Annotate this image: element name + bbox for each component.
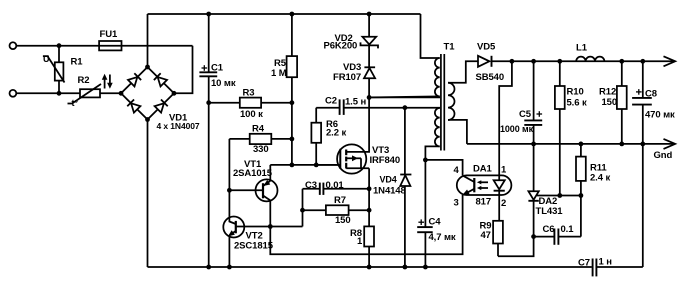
capacitor C6 (534, 224, 581, 245)
diode VD3 FR107 (333, 62, 375, 97)
svg-text:C4: C4 (429, 217, 442, 228)
capacitor C5 (500, 61, 542, 144)
svg-text:150: 150 (602, 97, 618, 108)
junction R3 right (290, 100, 295, 105)
wire riser to C3 R7 (302, 189, 304, 227)
junction R1 top (57, 43, 62, 48)
junction bridge bottom (145, 117, 150, 122)
svg-text:2SC1815: 2SC1815 (234, 241, 274, 252)
svg-text:4 x 1N4007: 4 x 1N4007 (157, 121, 200, 131)
diode VD4 1N4148 (373, 108, 411, 267)
junction out pin1 branch (510, 59, 515, 64)
junction gate line R6 (314, 163, 319, 168)
svg-text:470 мк: 470 мк (645, 110, 675, 121)
shunt regulator DA2 TL431 (528, 144, 581, 217)
wire node to DA1 pin3 (270, 195, 462, 254)
wire ground riser (642, 144, 644, 267)
wire R2 to bridge left (100, 92, 121, 94)
wire bottom rail (148, 266, 592, 268)
svg-text:3: 3 (454, 198, 459, 209)
wire N input to R2 (16, 92, 80, 94)
wire aux node (425, 160, 462, 176)
wire gate line (270, 164, 340, 166)
svg-text:FU1: FU1 (100, 29, 118, 40)
svg-text:P6K200: P6K200 (324, 41, 358, 52)
transistor VT2 2SC1815 (223, 217, 302, 268)
svg-text:R10: R10 (567, 87, 584, 98)
input terminal X2 (10, 90, 17, 97)
thermistor symbol t (68, 84, 102, 104)
resistor R9 (480, 221, 503, 257)
junction out R10 (557, 59, 562, 64)
junction VT2 emitter bottom rail (227, 265, 232, 270)
svg-text:817: 817 (476, 197, 492, 208)
junction C3 right (367, 186, 372, 191)
svg-text:VD5: VD5 (477, 42, 496, 53)
junction C6 DA2 line (531, 234, 536, 239)
junction ref R10 (557, 193, 562, 198)
svg-text:1: 1 (357, 236, 363, 247)
junction gnd R11 (579, 142, 584, 147)
T1 primary winding (369, 14, 440, 97)
transformer T1 (441, 42, 455, 151)
svg-text:R12: R12 (599, 87, 616, 98)
junction gnd R12 (619, 142, 624, 147)
wire source drop (368, 168, 370, 267)
junction VD4 bottom rail (403, 265, 408, 270)
svg-text:U: U (43, 54, 49, 64)
svg-text:C2: C2 (325, 96, 337, 107)
T1 secondary winding (448, 61, 478, 144)
junction aux VD4 tap (403, 105, 408, 110)
junction feedback node (268, 224, 273, 229)
junction R7 left (300, 208, 305, 213)
capacitor C3 (303, 180, 370, 195)
bridge diode bottom-right (154, 99, 167, 112)
wire primary bottom (369, 96, 440, 98)
junction R7 right (367, 208, 372, 213)
wire pin1 to out rail (499, 61, 512, 175)
svg-text:1 M: 1 M (271, 68, 287, 79)
resistor R7 (303, 195, 370, 226)
resistor R2 (thermistor) (80, 89, 100, 97)
svg-text:2SA1015: 2SA1015 (233, 168, 273, 179)
svg-text:1N4148: 1N4148 (373, 186, 406, 197)
svg-text:R4: R4 (252, 124, 265, 135)
wire L input to fuse (16, 45, 192, 47)
svg-text:T1: T1 (444, 42, 456, 53)
svg-text:C1: C1 (211, 63, 224, 74)
wire Gnd rail (467, 143, 674, 145)
junction drain node (367, 95, 372, 100)
junction R5 top rail (290, 12, 295, 17)
output arrow Gnd (664, 139, 676, 149)
wire top rail (148, 13, 421, 15)
capacitor C7 (578, 257, 643, 277)
bridge diode bottom-left (127, 99, 140, 112)
svg-text:R3: R3 (243, 88, 255, 99)
svg-text:C6: C6 (543, 224, 555, 235)
svg-text:4,7 мк: 4,7 мк (429, 232, 456, 243)
svg-text:R2: R2 (78, 75, 90, 86)
junction gnd C5 DA2 (531, 142, 536, 147)
diode VD5 SB540 (476, 42, 505, 84)
capacitor C4 (417, 160, 456, 267)
junction ref R11 (579, 193, 584, 198)
svg-text:5.6 к: 5.6 к (567, 98, 587, 109)
wire R4 left drop (228, 139, 230, 217)
svg-text:1 н: 1 н (599, 257, 613, 268)
svg-text:SB540: SB540 (476, 72, 505, 83)
svg-text:1.5 н: 1.5 н (345, 97, 366, 108)
junction gate line R5 (290, 163, 295, 168)
svg-text:330: 330 (253, 144, 269, 155)
wire bridge minus drop (147, 120, 149, 268)
bridge rectifier VD1 (121, 67, 174, 120)
resistor R3 (209, 88, 292, 121)
junction VT1 base / VT2 collector (227, 188, 232, 193)
junction C1 top rail (206, 12, 211, 17)
svg-text:100 к: 100 к (240, 109, 263, 120)
resistor R4 (229, 124, 292, 156)
capacitor C1 (199, 14, 235, 267)
capacitor C2 (316, 96, 440, 115)
junction bridge top (145, 65, 150, 70)
fuse FU1 (99, 41, 121, 50)
junction out R12 (619, 59, 624, 64)
junction aux node (423, 158, 428, 163)
capacitor C8 (632, 61, 675, 144)
wire fuse drop to bridge right (174, 46, 193, 94)
junction R8 bottom rail (367, 265, 372, 270)
wire pin2 to R9 (498, 195, 500, 221)
bridge diode top-left (128, 73, 141, 86)
svg-text:10 мк: 10 мк (211, 78, 236, 89)
wire R9 to DA2 cathode (498, 202, 534, 257)
resistor R5 (271, 14, 297, 165)
junction bridge right (172, 91, 177, 96)
junction bridge left (119, 91, 124, 96)
varistor R1 (58, 46, 60, 63)
svg-text:2.4 к: 2.4 к (590, 173, 610, 184)
input terminal X1 (10, 42, 17, 49)
junction out C8 (640, 59, 645, 64)
svg-text:C7: C7 (578, 258, 590, 269)
surge arrows (102, 74, 113, 89)
junction R3 left (206, 100, 211, 105)
wire bridge plus riser (147, 14, 149, 67)
resistor R12 (599, 61, 627, 144)
svg-text:47: 47 (481, 230, 491, 241)
resistor R11 (576, 144, 610, 237)
svg-text:4: 4 (454, 165, 460, 176)
svg-text:2: 2 (501, 198, 506, 209)
svg-text:TL431: TL431 (536, 206, 564, 217)
svg-text:L1: L1 (576, 43, 588, 54)
svg-text:R7: R7 (334, 195, 346, 206)
bridge diode top-right (154, 73, 167, 86)
junction out C5 (531, 59, 536, 64)
transistor VT1 2SA1015 (229, 159, 277, 227)
svg-text:FR107: FR107 (333, 72, 361, 83)
wire drain drop (346, 97, 369, 151)
resistor R10 (555, 61, 587, 195)
svg-text:VD4: VD4 (380, 175, 397, 185)
junction C4 bottom rail (423, 265, 428, 270)
optocoupler DA1 817 (454, 164, 512, 210)
svg-text:DA1: DA1 (473, 164, 493, 175)
svg-text:R1: R1 (71, 57, 84, 68)
svg-text:C8: C8 (645, 89, 657, 100)
wire output plus rail (492, 60, 675, 62)
inductor L1 (576, 43, 604, 62)
svg-text:C5: C5 (519, 109, 532, 120)
TVS diode VD2 P6K200 (324, 14, 379, 67)
svg-text:2.2 к: 2.2 к (326, 128, 346, 139)
svg-text:t°: t° (72, 98, 79, 108)
svg-text:1000 мк: 1000 мк (500, 124, 534, 134)
svg-text:0.1: 0.1 (561, 224, 575, 235)
junction gnd C8 riser (640, 142, 645, 147)
junction R4 right (290, 137, 295, 142)
output arrow plus (664, 56, 676, 66)
svg-text:0.01: 0.01 (326, 180, 345, 191)
junction VD2 top rail (367, 12, 372, 17)
svg-text:IRF840: IRF840 (370, 155, 401, 166)
MOSFET VT3 IRF840 (316, 144, 400, 173)
resistor R8 (350, 226, 374, 247)
svg-text:150: 150 (335, 215, 351, 226)
junction C1 line bottom rail (206, 265, 211, 270)
svg-text:C3: C3 (305, 180, 317, 191)
T1 aux winding (425, 108, 439, 160)
svg-text:Gnd: Gnd (654, 150, 673, 161)
junction R1 bottom (57, 91, 62, 96)
svg-text:1: 1 (501, 165, 507, 176)
resistor R6 (311, 108, 346, 165)
